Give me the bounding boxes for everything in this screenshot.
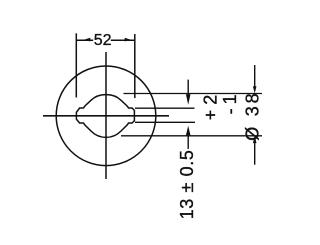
dim Ø38: lower arrowhead (points up to line B) (253, 136, 257, 143)
dim 13: lower arrowhead (points up) (186, 126, 191, 136)
dim 52: dimension line right segment (111, 39, 135, 41)
inner keyed hole (circle with side tabs) (76, 95, 134, 138)
vertical centerline (105, 52, 107, 179)
svg-text:Ø 38: Ø 38 (242, 91, 262, 141)
svg-text:52: 52 (94, 32, 112, 49)
dim 52: left arrowhead (83, 38, 90, 42)
extension line t (tab top) (135, 107, 195, 109)
svg-text:+2: +2 (200, 90, 220, 121)
dim Ø38: lower dimension line (254, 142, 256, 165)
dim 52: dimension line left segment (76, 39, 93, 41)
extension line b (tab bottom) (135, 121, 195, 123)
dim Ø38: upper arrowhead (points down to line T) (253, 86, 257, 93)
extension line T (top of Ø38) (124, 93, 263, 95)
extension line B (bottom of Ø38) (121, 135, 262, 137)
dim 52: right extension line (134, 34, 136, 98)
dim Ø38: upper dimension line (254, 65, 256, 88)
outer circle (body Ø38 flange) (56, 66, 156, 166)
svg-text:13 ± 0.5: 13 ± 0.5 (177, 150, 197, 220)
horizontal centerline (43, 115, 169, 117)
dim 52: right arrowhead (125, 38, 132, 42)
dim 52: left extension line (75, 33, 77, 97)
dim 13: upper leader line (187, 80, 189, 95)
dim 13: lower leader line (187, 135, 189, 149)
svg-text:-1: -1 (220, 90, 240, 114)
dim 13: upper arrowhead (points down) (186, 94, 191, 104)
